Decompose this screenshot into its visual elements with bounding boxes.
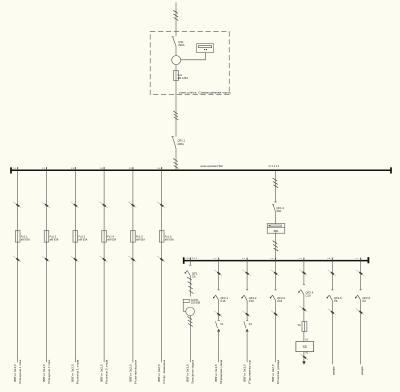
wire circuit 2.3	[246, 261, 248, 290]
svg-text:аМ 63А: аМ 63А	[50, 238, 59, 242]
breaker QF1.1	[172, 137, 186, 149]
wire circuit 2.2	[218, 261, 220, 290]
wire group feeder 4	[103, 170, 105, 230]
terminal box Х5	[296, 342, 314, 352]
RCD device ВД1	[267, 224, 285, 234]
wire	[331, 300, 333, 364]
wire circuit 2.1	[189, 261, 191, 266]
phase hatch	[188, 320, 193, 323]
wire group feeder 3	[74, 170, 76, 230]
svg-text:ВВГнг 3х2,5: ВВГнг 3х2,5	[128, 364, 132, 382]
cable mark	[71, 256, 79, 262]
svg-text:К2: К2	[249, 322, 253, 326]
wire to load	[46, 242, 48, 362]
energy meter circle	[172, 56, 181, 65]
phase hatch	[189, 291, 194, 294]
svg-text:Освещение 1 этаж: Освещение 1 этаж	[18, 360, 22, 384]
svg-text:ВД1: ВД1	[274, 229, 279, 233]
phase hatch	[174, 114, 179, 117]
wire	[360, 300, 362, 364]
transformer winding circle	[186, 307, 195, 316]
phase hatch	[173, 111, 178, 114]
wire	[189, 276, 191, 297]
breaker QF1.2	[272, 202, 284, 213]
main bus bar	[11, 169, 391, 171]
switch mark	[100, 202, 108, 208]
svg-text:ВВГнг 3х1,5: ВВГнг 3х1,5	[13, 364, 17, 382]
phase hatch	[273, 241, 278, 244]
svg-text:40А: 40А	[276, 209, 281, 213]
wire	[175, 65, 177, 71]
sub panel bus bar	[184, 260, 369, 262]
resistor Rн	[298, 322, 307, 332]
svg-text:200А: 200А	[178, 142, 184, 146]
svg-text:ВВГнг 3х1,5: ВВГнг 3х1,5	[42, 364, 46, 382]
wire group feeder 2	[46, 170, 48, 230]
wire	[175, 81, 177, 137]
fuse Fu1.4	[102, 231, 117, 243]
phase hatch	[174, 117, 179, 120]
wire meter to display	[181, 53, 206, 60]
breaker QF1 sub	[185, 265, 198, 278]
svg-text:резерв: резерв	[361, 366, 364, 375]
breaker QF2.1	[213, 290, 229, 303]
switch mark	[13, 202, 21, 208]
cable mark	[271, 311, 279, 317]
svg-text:С16: С16	[220, 299, 226, 303]
svg-text:С16: С16	[277, 299, 283, 303]
node main bus tap 1.3	[74, 167, 76, 170]
node sub bus tap 2.2	[218, 258, 220, 261]
svg-text:аМ 63А: аМ 63А	[21, 238, 30, 242]
node main bus tap 1.2	[46, 167, 48, 170]
node sub bus tap 2.3	[246, 258, 248, 261]
svg-text:200А: 200А	[178, 43, 184, 47]
node sub bus tap 2.4	[275, 258, 277, 261]
wire	[218, 300, 220, 320]
breaker QF2.5	[327, 290, 343, 303]
wire to load	[132, 242, 134, 362]
cable mark	[328, 309, 336, 315]
wire to load	[103, 242, 105, 362]
svg-text:Розетки улица: Розетки улица	[276, 359, 280, 383]
phase hatch	[274, 185, 279, 188]
wire	[175, 46, 177, 56]
node main bus tap 1.1	[17, 167, 19, 170]
svg-text:С6: С6	[362, 299, 366, 303]
sub bus right end tick	[367, 257, 369, 263]
cable mark	[356, 270, 364, 276]
node sub bus tap 2.7	[360, 258, 362, 261]
svg-text:1.1 1.2 1.3: 1.1 1.2 1.3	[268, 165, 279, 168]
breaker QF2.2	[241, 290, 257, 303]
cable mark	[100, 256, 108, 262]
svg-text:С6: С6	[192, 274, 196, 278]
cable mark	[328, 270, 336, 276]
wire	[218, 332, 220, 363]
svg-text:Освещение 2 этаж: Освещение 2 этаж	[47, 360, 51, 384]
phase hatch	[174, 166, 179, 169]
cable mark	[243, 270, 251, 276]
svg-text:+1.1+1.2+1.3: +1.1+1.2+1.3	[185, 258, 197, 260]
main bus left end tick	[10, 167, 12, 173]
phase hatch	[188, 324, 193, 327]
svg-text:резерв: резерв	[333, 366, 336, 375]
wire	[189, 316, 191, 363]
wire	[303, 332, 305, 342]
fuse Fu1.1	[15, 231, 30, 243]
svg-text:аМ 125А: аМ 125А	[178, 76, 189, 80]
breaker QF2.3	[270, 290, 286, 303]
wire	[275, 212, 277, 224]
svg-text:Х5: Х5	[303, 345, 307, 349]
cable mark	[42, 256, 50, 262]
svg-text:аМ 63А: аМ 63А	[165, 238, 174, 242]
wire circuit 2.7	[360, 261, 362, 290]
cable mark	[299, 306, 307, 312]
fuse Fu1	[174, 71, 189, 81]
fuse Fu1.6	[159, 231, 174, 243]
svg-text:Освещение подвал: Освещение подвал	[191, 360, 195, 384]
svg-text:ВВГнг 3х2,5: ВВГнг 3х2,5	[157, 364, 161, 382]
switch mark	[128, 202, 136, 208]
wire to load	[17, 242, 19, 362]
wire circuit 2.5	[303, 261, 305, 285]
wire	[175, 148, 177, 169]
phase hatch	[188, 286, 193, 289]
node sub bus tap 2.5	[303, 258, 305, 261]
cable mark	[13, 256, 21, 262]
fuse Fu1.3	[73, 231, 88, 243]
node sub bus tap 2.6	[331, 258, 333, 261]
wire	[246, 300, 248, 320]
svg-text:аМ 63А: аМ 63А	[107, 238, 116, 242]
phase hatch	[188, 282, 193, 285]
breaker QF2.4	[298, 284, 314, 297]
wire	[275, 233, 277, 260]
cable mark	[214, 270, 222, 276]
svg-text:С16: С16	[249, 299, 255, 303]
wire	[303, 295, 305, 322]
svg-text:ВВГнг 3х2,5: ВВГнг 3х2,5	[71, 364, 75, 382]
svg-text:узел учёта. Совмещённая часть: узел учёта. Совмещённая часть	[179, 90, 232, 94]
cable mark	[271, 270, 279, 276]
wire	[246, 332, 248, 363]
relay contact К1	[216, 320, 224, 331]
svg-text:ВВГнг 3х1,5: ВВГнг 3х1,5	[186, 364, 190, 382]
wire feeder to sub panel	[275, 170, 277, 202]
node sub bus tap 2.1	[189, 258, 191, 261]
svg-text:ВВГнг 3х1,5: ВВГнг 3х1,5	[243, 364, 247, 382]
node main bus tap 1.6	[161, 167, 163, 170]
wire group feeder 1	[17, 170, 19, 230]
phase hatch	[174, 14, 179, 17]
svg-text:С10: С10	[306, 293, 312, 297]
wire circuit 2.6	[331, 261, 333, 290]
phase hatch	[274, 248, 279, 251]
fuse Fu1.5	[131, 231, 146, 243]
main bus right end tick	[390, 167, 392, 173]
cable mark	[214, 311, 222, 317]
wire	[275, 300, 277, 362]
switch mark	[71, 202, 79, 208]
svg-text:220/36В: 220/36В	[191, 302, 201, 305]
svg-text:аМ 63А: аМ 63А	[136, 238, 145, 242]
svg-text:шина нулевая ГЗШ: шина нулевая ГЗШ	[200, 164, 223, 168]
svg-text:С6: С6	[334, 299, 338, 303]
wire circuit 2.4	[275, 261, 277, 290]
cable mark	[299, 269, 307, 275]
switch mark	[300, 354, 308, 360]
breaker QF2.6	[355, 290, 371, 303]
svg-text:Розетки 1 этаж: Розетки 1 этаж	[76, 360, 80, 384]
sub bus left end tick	[183, 257, 185, 264]
svg-text:ВВГнг 3х2,5: ВВГнг 3х2,5	[271, 364, 275, 382]
cable mark	[157, 256, 165, 262]
svg-text:Розетки 2 этаж: Розетки 2 этаж	[105, 360, 109, 384]
svg-text:Розетки кухня: Розетки кухня	[133, 359, 137, 383]
cable mark	[243, 311, 251, 317]
load arrow down	[302, 361, 305, 365]
relay contact К2	[244, 320, 252, 331]
phase hatch	[273, 244, 278, 247]
cable mark	[356, 309, 364, 315]
phase hatch	[173, 10, 178, 13]
phase hatch	[173, 162, 178, 165]
phase hatch	[187, 317, 192, 320]
phase hatch	[187, 277, 192, 280]
svg-text:Стир. машина: Стир. машина	[162, 359, 166, 383]
wire	[303, 352, 305, 362]
node main bus tap 1.4	[103, 167, 105, 170]
wire incoming supply	[175, 3, 177, 37]
svg-text:ВВГнг 3х1,5: ВВГнг 3х1,5	[214, 364, 218, 382]
switch mark	[42, 202, 50, 208]
phase hatch	[173, 159, 178, 162]
wire to load	[74, 242, 76, 362]
phase hatch	[273, 181, 278, 184]
switch QS1	[172, 37, 185, 47]
wire group feeder 5	[132, 170, 134, 230]
metering cabinet dashed outline	[150, 31, 229, 94]
wire to load	[161, 242, 163, 362]
node main bus tap 1.5	[132, 167, 134, 170]
svg-text:К1: К1	[220, 322, 224, 326]
svg-text:Прожектор: Прожектор	[248, 359, 252, 384]
switch mark	[157, 202, 165, 208]
transformer box ЯТП	[183, 299, 200, 311]
phase hatch	[273, 178, 278, 181]
wire group feeder 6	[161, 170, 163, 230]
fuse Fu1.2	[44, 231, 59, 243]
phase hatch	[174, 18, 179, 21]
svg-text:ВВГнг 3х2,5: ВВГнг 3х2,5	[100, 364, 104, 382]
svg-text:аМ 63А: аМ 63А	[78, 238, 87, 242]
svg-text:Освещение улица: Освещение улица	[219, 359, 223, 383]
meter display box	[197, 44, 214, 53]
cable mark	[128, 256, 136, 262]
